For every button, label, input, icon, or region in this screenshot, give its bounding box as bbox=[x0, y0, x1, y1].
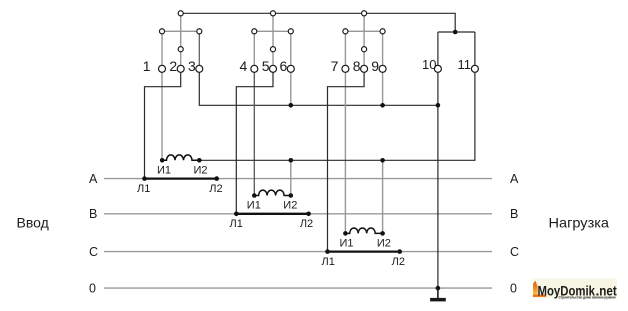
node Л1 of TA1 on bus A bbox=[142, 176, 147, 181]
wire from И2 of TA2 up to node on И2 common line bbox=[290, 160, 292, 195]
wire current link down to terminal 4 bbox=[253, 31, 255, 69]
meter current winding link terminals 4-6 bbox=[254, 30, 290, 32]
wire current link down to terminal 9 bbox=[382, 31, 384, 69]
winding pin circle above terminal 4 bbox=[252, 29, 257, 34]
winding pin circle on top line above terminal 5 bbox=[270, 11, 275, 16]
svg-text:11: 11 bbox=[458, 57, 472, 72]
junction node terminal6 line at y105 bbox=[289, 103, 294, 108]
svg-text:И1: И1 bbox=[247, 200, 261, 212]
wire from terminal 2 hook to Л1 of phase A bbox=[145, 69, 181, 179]
meter voltage winding column above terminal 8 bbox=[363, 13, 365, 69]
wire from terminal 3 down and right along y=105 to ground column bbox=[199, 69, 438, 106]
svg-text:3: 3 bbox=[188, 58, 196, 74]
node И2 of TA2 bbox=[289, 193, 294, 198]
svg-text:Ввод: Ввод bbox=[17, 214, 49, 230]
wire from terminal 10 down to neutral bus and ground bbox=[437, 69, 439, 288]
junction node И2-TA2 on common line bbox=[289, 158, 294, 163]
wire from И2 of TA3 up to node on И2 common line bbox=[382, 160, 384, 233]
CT TA1 secondary coil И1-И2 bbox=[162, 155, 199, 160]
svg-text:Л2: Л2 bbox=[392, 256, 405, 268]
bus line 0 neutral wire bbox=[104, 287, 492, 289]
svg-text:И1: И1 bbox=[339, 238, 353, 250]
svg-text:5: 5 bbox=[262, 58, 270, 74]
svg-text:И1: И1 bbox=[157, 164, 171, 176]
bus line B phase wire bbox=[104, 213, 492, 215]
node И1 of TA3 bbox=[343, 231, 348, 236]
terminal 8 circle bbox=[361, 65, 368, 72]
CT TA2 primary winding Л1-Л2 thick segment on bus B bbox=[236, 213, 308, 215]
logo orange sail icon bbox=[533, 281, 538, 296]
winding pin circle on top line above terminal 8 bbox=[362, 11, 367, 16]
svg-text:B: B bbox=[510, 207, 518, 221]
svg-text:Нагрузка: Нагрузка bbox=[549, 214, 610, 230]
node Л2 of TA2 on bus B bbox=[306, 212, 311, 217]
voltage winding circle above terminal 8 bbox=[362, 47, 367, 52]
terminal 6 circle bbox=[287, 65, 294, 72]
svg-text:A: A bbox=[89, 172, 98, 186]
terminal 7 circle bbox=[342, 65, 349, 72]
wire И2 common line from И2 of TA1 to terminal 11 bbox=[199, 69, 475, 161]
node И1 of TA1 bbox=[160, 158, 165, 163]
node Л2 of TA1 on bus A bbox=[214, 176, 219, 181]
winding pin circle above terminal 6 bbox=[288, 29, 293, 34]
winding pin circle above terminal 1 bbox=[159, 29, 164, 34]
wire current link down to terminal 1 bbox=[161, 31, 163, 69]
bus line C phase wire bbox=[104, 251, 492, 253]
wire from terminal 6 down to node on y=105 line bbox=[290, 69, 292, 106]
terminal 2 circle bbox=[177, 65, 184, 72]
wire from terminal 8 hook to Л1 of phase C bbox=[328, 69, 365, 252]
wire from terminal 1 down to И1 of TA1 bbox=[161, 69, 163, 161]
terminal 3 circle bbox=[196, 65, 203, 72]
winding pin circle above terminal 3 bbox=[197, 29, 202, 34]
wire current link down to terminal 6 bbox=[290, 31, 292, 69]
meter voltage winding column above terminal 2 bbox=[180, 13, 182, 69]
winding pin circle above terminal 9 bbox=[380, 29, 385, 34]
svg-text:0: 0 bbox=[89, 281, 96, 295]
svg-text:И2: И2 bbox=[193, 164, 207, 176]
svg-text:Л2: Л2 bbox=[209, 183, 222, 195]
terminal 11 circle bbox=[471, 65, 478, 72]
wire from terminal 5 hook to Л1 of phase B bbox=[236, 69, 273, 214]
svg-text:0: 0 bbox=[510, 281, 517, 295]
junction node ground column at y105 bbox=[436, 103, 441, 108]
wire current link down to terminal 3 bbox=[198, 31, 200, 69]
svg-text:8: 8 bbox=[353, 58, 361, 74]
svg-text:И2: И2 bbox=[377, 238, 391, 250]
junction node neutral-ground on bus 0 bbox=[436, 286, 441, 291]
wire bridge down to terminal 11 bbox=[474, 32, 476, 69]
terminal 4 circle bbox=[251, 65, 258, 72]
svg-text:B: B bbox=[89, 207, 97, 221]
svg-text:9: 9 bbox=[371, 58, 379, 74]
voltage winding circle above terminal 5 bbox=[270, 47, 275, 52]
junction node terminal9 line at y105 bbox=[380, 103, 385, 108]
svg-text:A: A bbox=[510, 172, 519, 186]
svg-text:C: C bbox=[510, 245, 519, 259]
node И1 of TA2 bbox=[252, 193, 257, 198]
ground symbol bar bbox=[430, 298, 446, 302]
meter internal top common line of voltage windings bbox=[181, 13, 456, 32]
svg-text:Л1: Л1 bbox=[137, 183, 150, 195]
wire from terminal 7 down to И1 of TA3 bbox=[344, 69, 346, 234]
svg-text:6: 6 bbox=[280, 58, 288, 74]
wire from terminal 4 down to И1 of TA2 bbox=[253, 69, 255, 196]
node Л1 of TA3 on bus C bbox=[325, 249, 330, 254]
node И2 of TA1 bbox=[197, 158, 202, 163]
bus line A phase wire bbox=[104, 178, 492, 180]
meter voltage winding column above terminal 5 bbox=[272, 13, 274, 69]
svg-text:2: 2 bbox=[169, 58, 177, 74]
terminal 5 circle bbox=[270, 65, 277, 72]
terminal 10 circle bbox=[434, 65, 441, 72]
svg-text:4: 4 bbox=[240, 58, 248, 74]
junction node on bridge bbox=[453, 30, 458, 35]
node И2 of TA3 bbox=[380, 231, 385, 236]
CT TA3 secondary coil И1-И2 bbox=[345, 228, 382, 233]
meter internal bridge to terminals 10 and 11 bbox=[438, 31, 475, 33]
svg-text:И2: И2 bbox=[283, 200, 297, 212]
CT TA3 primary winding Л1-Л2 thick segment on bus C bbox=[328, 250, 400, 252]
svg-text:7: 7 bbox=[331, 58, 339, 74]
CT TA1 primary winding Л1-Л2 thick segment on bus A bbox=[145, 177, 217, 179]
CT TA2 secondary coil И1-И2 bbox=[254, 190, 291, 195]
terminal 9 circle bbox=[379, 65, 386, 72]
wire from terminal 9 down to node on y=105 line bbox=[382, 69, 384, 106]
voltage winding circle above terminal 2 bbox=[178, 47, 183, 52]
svg-text:Л2: Л2 bbox=[300, 218, 313, 230]
svg-text:1: 1 bbox=[143, 58, 151, 74]
winding pin circle above terminal 7 bbox=[343, 29, 348, 34]
svg-text:C: C bbox=[89, 245, 98, 259]
terminal 1 circle bbox=[159, 65, 166, 72]
svg-text:10: 10 bbox=[422, 57, 436, 72]
svg-text:Строительство дома своими рука: Строительство дома своими руками bbox=[559, 295, 616, 299]
svg-text:Л1: Л1 bbox=[230, 218, 243, 230]
ground symbol stub bbox=[437, 288, 439, 298]
logo MoyDomik.net background bbox=[533, 279, 617, 299]
winding pin circle on top line above terminal 2 bbox=[178, 11, 183, 16]
wire bridge down to terminal 10 bbox=[437, 32, 439, 69]
node Л2 of TA3 on bus C bbox=[397, 249, 402, 254]
meter current winding link terminals 7-9 bbox=[345, 30, 382, 32]
node Л1 of TA2 on bus B bbox=[234, 212, 239, 217]
wire current link down to terminal 7 bbox=[344, 31, 346, 69]
meter current winding link terminals 1-3 bbox=[162, 30, 199, 32]
svg-text:Л1: Л1 bbox=[322, 256, 335, 268]
junction node И2-TA3 on common line bbox=[380, 158, 385, 163]
logo orange base bar bbox=[533, 295, 546, 297]
